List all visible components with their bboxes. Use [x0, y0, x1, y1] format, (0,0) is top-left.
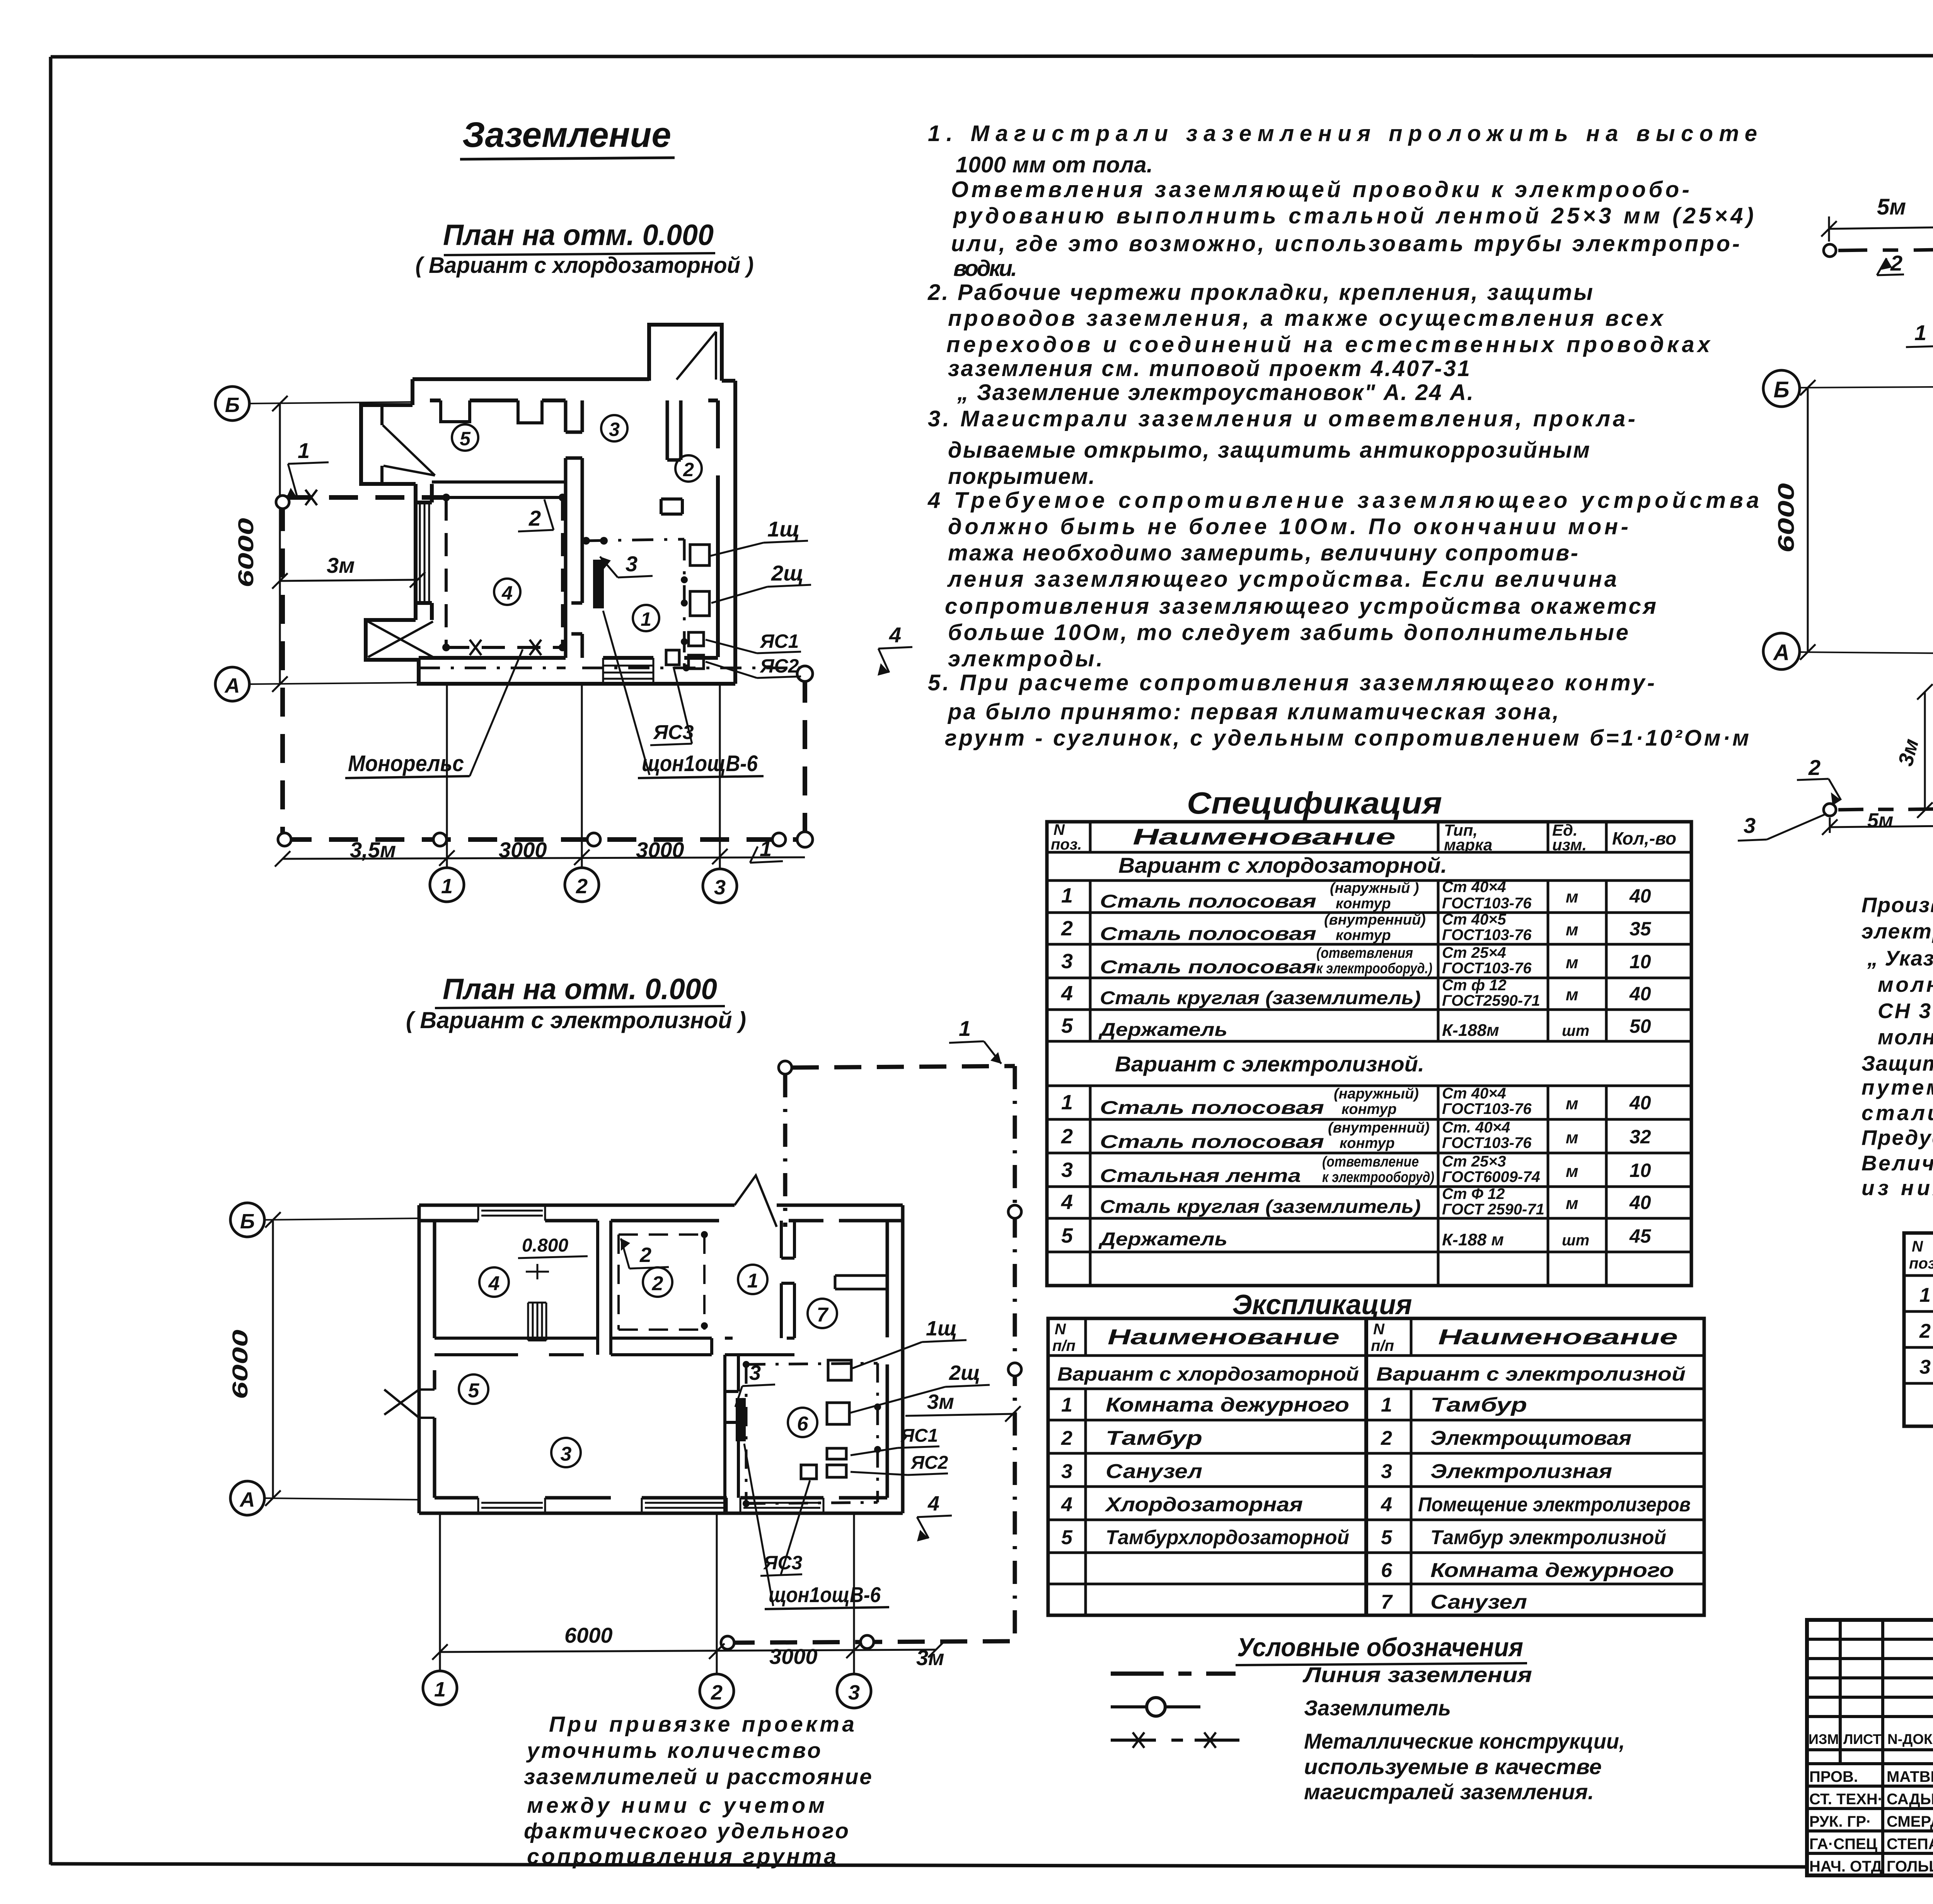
top wall with window gaps: [419, 1205, 903, 1221]
tambour top right: [649, 325, 722, 381]
svg-text:Тамбур: Тамбур: [1430, 1394, 1527, 1416]
svg-text:переходов и соединений на есте: переходов и соединений на естественных п…: [946, 332, 1711, 357]
svg-text:Ответвления заземляющей провод: Ответвления заземляющей проводки к элект…: [951, 177, 1689, 202]
svg-text:К-188 м: К-188 м: [1442, 1230, 1504, 1249]
svg-text:Заземлитель: Заземлитель: [1304, 1696, 1451, 1720]
svg-text:N-ДОКУМ .: N-ДОКУМ .: [1887, 1731, 1933, 1747]
svg-text:1: 1: [1061, 884, 1073, 907]
svg-text:7: 7: [817, 1304, 829, 1326]
svg-text:10: 10: [1630, 1160, 1651, 1181]
svg-text:контур: контур: [1336, 927, 1391, 943]
svg-text:1: 1: [434, 1678, 446, 1701]
plan2 electrical panel black bar: [736, 1398, 746, 1441]
door swing in tambour: [677, 332, 716, 380]
svg-text:Держатель: Держатель: [1098, 1020, 1227, 1040]
svg-text:контур: контур: [1336, 896, 1391, 912]
svg-text:Б: Б: [225, 393, 240, 417]
left wall: [419, 1205, 435, 1513]
plan2 column circles and dim line: [423, 1513, 944, 1708]
svg-text:2: 2: [1061, 1427, 1072, 1449]
plan1 callout 3: [600, 552, 653, 577]
svg-text:3,5м: 3,5м: [350, 838, 396, 862]
svg-text:„ Указаний по проектированию: „ Указаний по проектированию и устройств…: [1867, 946, 1933, 970]
svg-text:ГОСТ103-76: ГОСТ103-76: [1442, 926, 1532, 943]
svg-text:5: 5: [468, 1379, 480, 1402]
specification table 2 grid: [1904, 1233, 1933, 1426]
plan2 0.800 mark: [518, 1235, 588, 1279]
svg-text:заземлителей и расстояние: заземлителей и расстояние: [524, 1764, 872, 1789]
svg-text:2: 2: [528, 506, 541, 530]
right wall: [708, 381, 735, 684]
svg-text:Комната дежурного: Комната дежурного: [1106, 1394, 1349, 1416]
svg-text:1000 мм от пола.: 1000 мм от пола.: [956, 152, 1153, 177]
svg-text:1: 1: [1381, 1394, 1392, 1416]
svg-text:3: 3: [1061, 1158, 1073, 1182]
svg-text:СН 305-69 относится ко II: СН 305-69 относится ко II категории устр…: [1878, 999, 1933, 1023]
plan2 bottom note text: [524, 1712, 872, 1869]
svg-text:Сталь полосовая: Сталь полосовая: [1100, 924, 1316, 944]
svg-text:40: 40: [1629, 1092, 1651, 1114]
door swing room5: [383, 425, 435, 475]
specification table 1 title: [1187, 786, 1442, 820]
svg-text:32: 32: [1630, 1126, 1651, 1148]
svg-text:1щ: 1щ: [926, 1317, 957, 1340]
svg-text:Электрощитовая: Электрощитовая: [1430, 1427, 1631, 1449]
svg-text:3000: 3000: [769, 1644, 818, 1669]
svg-text:больше 10Ом, то следует забить: больше 10Ом, то следует забить дополните…: [948, 620, 1628, 645]
svg-text:Сталь полосовая: Сталь полосовая: [1100, 891, 1316, 912]
svg-text:Сталь полосовая: Сталь полосовая: [1100, 1132, 1324, 1152]
svg-text:электроды.: электроды.: [948, 646, 1103, 671]
specification table 1 text: [1051, 821, 1676, 1250]
plan1 electrical panel (black bar): [593, 560, 604, 608]
svg-text:3: 3: [714, 876, 726, 899]
svg-text:(ответвления: (ответвления: [1316, 945, 1413, 961]
svg-text:Наименование: Наименование: [1438, 1325, 1678, 1349]
svg-text:Вариант с хлордозаторной.: Вариант с хлордозаторной.: [1118, 853, 1447, 877]
svg-text:должно быть не более 10Ом. По: должно быть не более 10Ом. По окончании …: [948, 514, 1628, 539]
svg-text:2: 2: [652, 1272, 663, 1295]
svg-text:заземления см. типовой проект: заземления см. типовой проект 4.407-31: [948, 356, 1470, 381]
svg-text:3000: 3000: [499, 838, 547, 862]
svg-text:1: 1: [760, 836, 772, 861]
svg-text:Ст 25×3: Ст 25×3: [1442, 1153, 1506, 1170]
svg-text:покрытием.: покрытием.: [948, 464, 1095, 489]
svg-text:1: 1: [1919, 1284, 1931, 1306]
svg-text:3. Магистрали заземления и отв: 3. Магистрали заземления и ответвления, …: [928, 406, 1635, 431]
svg-text:Сталь полосовая: Сталь полосовая: [1100, 1098, 1324, 1118]
lightning plan: axis circles: [1763, 370, 1933, 669]
plan1 column axis lines + circles: [275, 400, 805, 903]
svg-text:5: 5: [1381, 1526, 1393, 1549]
svg-text:1: 1: [1061, 1091, 1073, 1114]
svg-text:шт: шт: [1562, 1022, 1589, 1039]
svg-text:к электрооборуд): к электрооборуд): [1322, 1169, 1434, 1185]
svg-text:грунт - суглинок, с удельным с: грунт - суглинок, с удельным сопротивлен…: [945, 725, 1749, 751]
svg-text:2: 2: [1061, 1125, 1073, 1148]
stairs in room 4: [528, 1303, 546, 1340]
svg-text:Ст ф 12: Ст ф 12: [1442, 977, 1507, 994]
bottom wall: [419, 658, 735, 684]
svg-text:3: 3: [749, 1361, 761, 1385]
svg-text:ЯС2: ЯС2: [759, 655, 799, 677]
svg-text:6000: 6000: [1774, 483, 1799, 553]
svg-text:5: 5: [1061, 1014, 1073, 1037]
svg-text:Сталь круглая (заземлитель): Сталь круглая (заземлитель): [1100, 1197, 1421, 1217]
svg-text:ГОСТ103-76: ГОСТ103-76: [1442, 895, 1532, 912]
svg-text:Предусмотренны два токоотвод: Предусмотренны два токоотвода из стали Ф…: [1861, 1126, 1933, 1150]
svg-text:между ними с учетом: между ними с учетом: [527, 1793, 825, 1818]
svg-text:3000: 3000: [636, 838, 684, 862]
svg-text:Вариант с хлордозаторной: Вариант с хлордозаторной: [1057, 1363, 1359, 1385]
svg-text:ЯС1: ЯС1: [900, 1425, 938, 1446]
svg-text:3: 3: [848, 1681, 860, 1704]
svg-text:План на отм. 0.000: План на отм. 0.000: [443, 219, 714, 252]
svg-text:Кол,-во: Кол,-во: [1612, 828, 1676, 848]
svg-text:сопротивления заземляющего уст: сопротивления заземляющего устройства ок…: [945, 594, 1656, 619]
svg-text:ГОСТ103-76: ГОСТ103-76: [1442, 960, 1532, 977]
plan2 outer walls: [384, 1175, 903, 1513]
section title Заземление: [460, 115, 675, 159]
svg-text:ГОСТ2590-71: ГОСТ2590-71: [1442, 992, 1540, 1009]
svg-text:1: 1: [1914, 320, 1926, 345]
svg-text:45: 45: [1629, 1225, 1652, 1247]
svg-text:НАЧ. ОТД: НАЧ. ОТД: [1809, 1858, 1882, 1875]
svg-text:Б: Б: [240, 1210, 255, 1233]
svg-text:м: м: [1566, 1194, 1578, 1213]
svg-text:СМЕРДОВА: СМЕРДОВА: [1887, 1813, 1933, 1830]
bottom stair detail: [603, 658, 653, 684]
svg-text:Условные обозначения: Условные обозначения: [1237, 1633, 1523, 1662]
svg-text:Линия заземления: Линия заземления: [1302, 1662, 1532, 1687]
svg-text:контур: контур: [1340, 1135, 1395, 1151]
svg-text:марка: марка: [1444, 836, 1492, 854]
svg-text:Сталь круглая (заземлитель): Сталь круглая (заземлитель): [1100, 988, 1421, 1008]
svg-text:3: 3: [1744, 813, 1756, 838]
svg-text:Ст 40×4: Ст 40×4: [1442, 879, 1506, 896]
svg-text:План на отм. 0.000: План на отм. 0.000: [443, 973, 717, 1006]
svg-text:50: 50: [1630, 1015, 1651, 1037]
svg-text:4: 4: [1381, 1494, 1392, 1516]
svg-text:из них должна быть не бо: из них должна быть не более 100м.: [1861, 1176, 1933, 1200]
vertical wall between 1 and 7: [781, 1221, 794, 1338]
specification table 2 text: [1909, 1237, 1933, 1380]
svg-text:2: 2: [711, 1681, 723, 1704]
svg-text:4: 4: [1061, 1190, 1073, 1214]
svg-text:используемые в качестве: используемые в качестве: [1304, 1754, 1602, 1779]
svg-text:Тамбурхлордозаторной: Тамбурхлордозаторной: [1106, 1526, 1349, 1549]
svg-text:2: 2: [1061, 917, 1073, 940]
svg-text:5: 5: [460, 428, 471, 450]
svg-text:5: 5: [1061, 1526, 1073, 1549]
svg-text:ра было принято: первая климат: ра было принято: первая климатическая зо…: [947, 699, 1559, 724]
svg-text:2: 2: [1919, 1320, 1931, 1342]
svg-text:путем наложения молниеприем: путем наложения молниеприемной сетки из: [1861, 1075, 1933, 1099]
svg-text:6000: 6000: [228, 1330, 252, 1399]
svg-text:3: 3: [1061, 950, 1073, 973]
svg-text:м: м: [1566, 953, 1578, 972]
plan1 labels 1щ 2щ ЯС1 ЯС2: [706, 517, 811, 678]
svg-text:ИЗМ: ИЗМ: [1809, 1731, 1839, 1747]
svg-text:ЯС1: ЯС1: [759, 630, 799, 652]
svg-text:6: 6: [1381, 1559, 1393, 1582]
svg-text:ПРОВ.: ПРОВ.: [1809, 1768, 1858, 1785]
svg-text:ления заземляющего устройства.: ления заземляющего устройства. Если вели…: [947, 567, 1617, 592]
svg-text:Ст. 40×4: Ст. 40×4: [1442, 1119, 1510, 1136]
svg-text:изм.: изм.: [1552, 836, 1587, 854]
svg-text:2: 2: [683, 459, 694, 480]
svg-text:ГОЛЬЦМАН: ГОЛЬЦМАН: [1887, 1858, 1933, 1875]
svg-text:поз.: поз.: [1909, 1255, 1933, 1272]
svg-text:Б: Б: [1773, 377, 1789, 402]
svg-text:40: 40: [1629, 983, 1651, 1005]
svg-text:А: А: [224, 674, 240, 697]
svg-text:1: 1: [298, 438, 310, 463]
svg-text:м: м: [1566, 920, 1578, 939]
svg-text:2: 2: [576, 875, 588, 898]
vertical wall between 3 and 6: [725, 1355, 738, 1513]
right wall: [887, 1205, 903, 1513]
svg-text:Санузел: Санузел: [1106, 1460, 1202, 1483]
svg-text:3: 3: [1919, 1356, 1931, 1378]
plan2 internal walls: [435, 1221, 887, 1513]
svg-text:5м: 5м: [1877, 194, 1906, 220]
plan2 callout 2: [621, 1238, 669, 1269]
svg-text:Ст 40×5: Ст 40×5: [1442, 911, 1506, 928]
svg-text:2: 2: [639, 1243, 651, 1267]
plan1 callout 4 right: [878, 623, 912, 676]
plan1 bottom labels: [345, 611, 764, 778]
svg-text:м: м: [1566, 1162, 1578, 1181]
svg-text:Величина импульсного сопроти: Величина импульсного сопротивления каждо…: [1861, 1151, 1933, 1175]
svg-text:( Вариант с хлордозаторной ): ( Вариант с хлордозаторной ): [416, 253, 754, 278]
svg-text:3м: 3м: [916, 1645, 944, 1670]
explication table title: [1232, 1289, 1412, 1320]
svg-text:ГОСТ103-76: ГОСТ103-76: [1442, 1134, 1532, 1151]
legend: ground line symbol: [1111, 1672, 1236, 1676]
svg-text:Ст Ф 12: Ст Ф 12: [1442, 1185, 1505, 1202]
svg-text:3: 3: [561, 1443, 572, 1465]
svg-text:1: 1: [1061, 1394, 1072, 1416]
door opening top (swing): [735, 1175, 777, 1227]
svg-text:стали Ф 8 мм на кровлю зда: стали Ф 8 мм на кровлю здания.: [1861, 1101, 1933, 1125]
svg-text:7: 7: [1381, 1591, 1393, 1613]
legend: earth electrode symbol: [1111, 1698, 1200, 1716]
svg-text:м: м: [1566, 1094, 1578, 1113]
svg-text:Санузел: Санузел: [1430, 1591, 1527, 1613]
svg-text:дываемые открыто, защитить ант: дываемые открыто, защитить антикоррозийн…: [948, 438, 1590, 463]
3m dim: [280, 580, 418, 581]
svg-text:N: N: [1373, 1321, 1385, 1338]
explication table text: [1052, 1321, 1691, 1613]
legend: metal structures symbol: [1111, 1732, 1239, 1748]
lightning plan: top-left detail 5m: [1821, 194, 1933, 387]
notes text block: [927, 121, 1759, 751]
svg-text:3: 3: [626, 552, 638, 576]
svg-text:1: 1: [441, 875, 453, 898]
room 7 inner partition: [835, 1276, 887, 1289]
plan2 right labels: [744, 1317, 1021, 1609]
title block frame: [1807, 1620, 1933, 1875]
svg-text:1: 1: [641, 608, 651, 630]
svg-text:м: м: [1566, 1128, 1578, 1147]
svg-text:При привязке проекта: При привязке проекта: [549, 1712, 854, 1737]
plan1 ground dashed contour in room 4: [442, 494, 566, 655]
svg-text:Наименование: Наименование: [1108, 1325, 1340, 1349]
svg-text:(внутренний): (внутренний): [1328, 1120, 1430, 1136]
svg-text:тажа необходимо замерить, вели: тажа необходимо замерить, величину сопро…: [948, 540, 1578, 565]
left mid pier zone (monorail niche): [416, 484, 432, 620]
svg-text:проводов заземления, а также о: проводов заземления, а также осуществлен…: [948, 306, 1664, 331]
svg-text:1: 1: [747, 1270, 759, 1292]
svg-text:А: А: [239, 1488, 255, 1511]
svg-text:4: 4: [1061, 1494, 1072, 1516]
svg-text:Экспликация: Экспликация: [1232, 1289, 1412, 1320]
svg-text:м: м: [1566, 887, 1578, 906]
svg-text:п/п: п/п: [1052, 1337, 1076, 1354]
svg-text:Спецификация: Спецификация: [1187, 786, 1442, 820]
plan1 title: [416, 219, 754, 278]
bottom wall with window gaps: [419, 1498, 903, 1513]
svg-text:ЛИСТ: ЛИСТ: [1843, 1731, 1881, 1747]
plan1 internal walls: [432, 400, 682, 658]
svg-text:35: 35: [1630, 918, 1652, 940]
svg-text:рудованию выполнить стальной л: рудованию выполнить стальной лентой 25×3…: [953, 203, 1754, 228]
svg-text:СТ. ТЕХН·: СТ. ТЕХН·: [1809, 1791, 1883, 1808]
plan1 room number circles: [452, 415, 702, 631]
plan2 room circles: [459, 1265, 837, 1467]
svg-text:к электрооборуд.): к электрооборуд.): [1316, 961, 1432, 977]
door room5 left: [384, 1390, 435, 1418]
svg-text:Помещение электролизеров: Помещение электролизеров: [1418, 1494, 1691, 1516]
plan1 external ground loop: [276, 490, 813, 847]
top wall double line: [413, 379, 649, 400]
svg-text:2: 2: [1808, 755, 1820, 780]
svg-text:поз.: поз.: [1051, 836, 1082, 853]
title block header texts: [1809, 1731, 1933, 1875]
svg-text:Тамбур электролизной: Тамбур электролизной: [1430, 1526, 1666, 1549]
left wall upper with room5 bump: [361, 379, 416, 484]
svg-text:ГОСТ103-76: ГОСТ103-76: [1442, 1100, 1532, 1117]
svg-text:1щ: 1щ: [767, 517, 800, 541]
svg-text:п/п: п/п: [1371, 1337, 1394, 1354]
svg-text:2. Рабочие чертежи прокладки,: 2. Рабочие чертежи прокладки, крепления,…: [927, 280, 1593, 305]
svg-text:4: 4: [1061, 982, 1073, 1005]
svg-text:Комната дежурного: Комната дежурного: [1430, 1559, 1674, 1582]
svg-text:6000: 6000: [234, 518, 258, 588]
svg-text:3: 3: [1061, 1460, 1072, 1483]
svg-text:3м: 3м: [1894, 736, 1923, 768]
svg-text:2щ: 2щ: [771, 561, 804, 585]
lower-left bump: [366, 620, 419, 660]
door swing lower-left: [368, 622, 433, 657]
svg-text:Вариант с электролизной: Вариант с электролизной: [1376, 1363, 1686, 1385]
svg-text:(наружный ): (наружный ): [1330, 880, 1419, 896]
svg-text:сопротивления грунта: сопротивления грунта: [527, 1844, 836, 1869]
room 2 dashed inner contour: [619, 1235, 704, 1330]
svg-text:или, где это возможно, использ: или, где это возможно, использовать труб…: [951, 231, 1740, 256]
svg-text:5: 5: [1061, 1224, 1073, 1247]
svg-text:Ст 25×4: Ст 25×4: [1442, 944, 1506, 961]
svg-text:(внутренний): (внутренний): [1324, 912, 1426, 928]
svg-text:3м: 3м: [327, 553, 355, 577]
svg-text:4: 4: [501, 582, 513, 604]
svg-text:щон1ощВ-6: щон1ощВ-6: [642, 751, 758, 776]
svg-text:4: 4: [488, 1272, 500, 1295]
svg-text:м: м: [1566, 985, 1578, 1004]
svg-text:6: 6: [797, 1413, 809, 1435]
svg-text:РУК. ГР·: РУК. ГР·: [1809, 1813, 1871, 1830]
horizontal wall between top rooms and bottom: [435, 1338, 598, 1355]
svg-text:2: 2: [1381, 1427, 1392, 1449]
svg-text:3м: 3м: [927, 1390, 954, 1414]
svg-text:Тамбур: Тамбур: [1106, 1427, 1202, 1449]
svg-text:шт: шт: [1562, 1232, 1589, 1249]
svg-text:Электролизная: Электролизная: [1430, 1460, 1612, 1483]
plan2 panels in room 6: [801, 1360, 851, 1479]
svg-text:ЯС2: ЯС2: [910, 1453, 948, 1473]
svg-text:Сталь полосовая: Сталь полосовая: [1100, 957, 1316, 978]
svg-text:контур: контур: [1342, 1101, 1397, 1117]
svg-text:1. Магистрали заземления проло: 1. Магистрали заземления проложить на вы…: [928, 121, 1757, 146]
svg-text:3: 3: [1381, 1460, 1392, 1483]
svg-text:электролизной и доочисткой со: электролизной и доочисткой согласно: [1861, 919, 1933, 943]
svg-text:ГА·СПЕЦ: ГА·СПЕЦ: [1809, 1836, 1877, 1853]
svg-text:Наименование: Наименование: [1133, 824, 1396, 850]
svg-text:„ Заземление электроустановок": „ Заземление электроустановок" А. 24 А.: [957, 380, 1473, 405]
explication table grid: [1048, 1318, 1704, 1615]
svg-text:40: 40: [1629, 885, 1651, 907]
plan2 axis circles and dims: [228, 1203, 419, 1515]
svg-text:молниезащиты зданий и соору: молниезащиты зданий и сооружений ": [1878, 972, 1933, 996]
svg-text:щон1ощВ-6: щон1ощВ-6: [769, 1582, 881, 1607]
svg-text:Производственно-вспомогательно: Производственно-вспомогательное здание с: [1861, 893, 1933, 917]
svg-text:4: 4: [889, 623, 901, 647]
svg-text:0.800: 0.800: [522, 1235, 568, 1256]
svg-text:молниезащиты.: молниезащиты.: [1878, 1025, 1933, 1049]
svg-text:1: 1: [959, 1016, 971, 1041]
svg-text:МАТВЕЕВА·: МАТВЕЕВА·: [1887, 1768, 1933, 1785]
svg-text:5. При расчете сопротивления з: 5. При расчете сопротивления заземляющег…: [928, 670, 1655, 695]
svg-text:Заземление: Заземление: [462, 115, 671, 155]
plan1 dash-dot line through room 1: [419, 537, 805, 671]
svg-text:К-188м: К-188м: [1442, 1021, 1499, 1040]
svg-text:Защита от прямых ударов молн: Защита от прямых ударов молнии осуществл…: [1861, 1051, 1933, 1075]
plan2 titles: [406, 973, 746, 1033]
plan2 ground dash-dot inside room 6: [743, 1361, 881, 1507]
svg-text:Ст 40×4: Ст 40×4: [1442, 1085, 1506, 1102]
right text block: [1861, 893, 1933, 1200]
vertical wall between 4 and 2: [598, 1221, 611, 1338]
svg-text:ГОСТ6009-74: ГОСТ6009-74: [1442, 1168, 1540, 1185]
plan1 wall panels 1щ 2щ ЯС1 ЯС2: [666, 545, 709, 669]
svg-text:Держатель: Держатель: [1098, 1229, 1227, 1250]
svg-text:СТЕПАНЕНКО: СТЕПАНЕНКО: [1887, 1836, 1933, 1853]
svg-text:2щ: 2щ: [949, 1361, 980, 1385]
svg-text:(наружный): (наружный): [1334, 1086, 1419, 1102]
svg-text:5м: 5м: [1867, 809, 1893, 832]
svg-text:4 Требуемое сопротивление зазе: 4 Требуемое сопротивление заземляющего у…: [927, 488, 1759, 513]
svg-text:уточнить количество: уточнить количество: [526, 1738, 821, 1763]
svg-text:фактического удельного: фактического удельного: [524, 1819, 849, 1843]
plan1 axis circles and dims: [215, 387, 425, 701]
svg-text:( Вариант с электролизной ): ( Вариант с электролизной ): [406, 1007, 746, 1033]
svg-text:3: 3: [609, 419, 620, 440]
svg-text:Металлические конструкции,: Металлические конструкции,: [1304, 1729, 1625, 1753]
svg-text:2: 2: [1890, 251, 1902, 275]
svg-text:магистралей заземления.: магистралей заземления.: [1304, 1780, 1594, 1804]
svg-text:4: 4: [927, 1492, 939, 1515]
